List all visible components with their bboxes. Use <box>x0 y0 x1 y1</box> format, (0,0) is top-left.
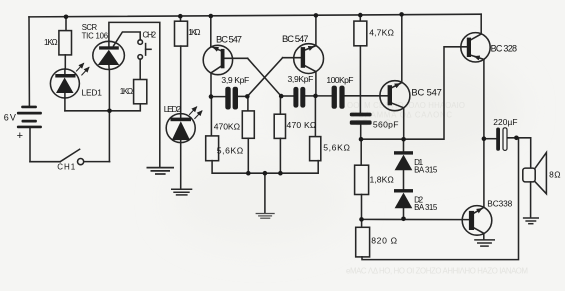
ground G5 LED2 <box>171 189 192 195</box>
LED1 bar <box>55 74 75 78</box>
node F C4-R9 junction <box>359 137 364 142</box>
Q1 emitter diagonal <box>211 46 221 50</box>
wire node D down to R6 <box>279 96 281 114</box>
battery B1 6V plates <box>17 106 42 129</box>
faint print-through artifacts <box>346 101 528 276</box>
wire rail to Q1 emitter <box>210 16 212 47</box>
switch CH1 blade <box>60 149 79 161</box>
wire R4 down through crossover to C4 <box>359 46 361 113</box>
wire SCR cathode up and over to ground <box>109 22 160 167</box>
svg-text:100KpF: 100KpF <box>326 75 353 85</box>
svg-text:BC 547: BC 547 <box>282 33 309 44</box>
svg-text:3,9 KpF: 3,9 KpF <box>221 75 249 85</box>
capacitor C1 wire right <box>238 95 247 97</box>
svg-text:5,6KΩ: 5,6KΩ <box>323 142 350 152</box>
svg-text:8Ω: 8Ω <box>549 169 560 179</box>
capacitor C1 3,9KpF plates <box>225 87 230 110</box>
SCR inner stems <box>108 41 110 46</box>
node rail-Q3 junction <box>399 12 404 17</box>
svg-text:4,7KΩ: 4,7KΩ <box>369 28 394 38</box>
wire Q3 collector down to node F <box>403 108 405 140</box>
SCR cathode bar <box>99 46 119 49</box>
wire cross X left-to-right <box>248 58 282 96</box>
svg-text:BC338: BC338 <box>487 198 512 208</box>
wire node C down to R5 <box>247 96 249 111</box>
transistor Q3 circle <box>380 81 410 111</box>
switch CH1 contact <box>78 159 84 165</box>
svg-text:TIC 106: TIC 106 <box>82 31 109 40</box>
diode D2 bar <box>394 189 413 192</box>
svg-text:BC 547: BC 547 <box>411 87 442 98</box>
wire rail corner down to Q4 <box>480 14 482 34</box>
wire node D to C2 <box>281 95 293 97</box>
node E Q2 collector junction <box>313 94 318 99</box>
Q4 base bar <box>467 38 471 57</box>
wire CH1 to riser <box>84 161 110 163</box>
node rail-R3 junction <box>178 14 183 19</box>
node G R9-R10 junction <box>359 217 364 222</box>
SCR triangle <box>98 50 119 65</box>
wire top supply rail <box>29 14 481 17</box>
svg-text:1KΩ: 1KΩ <box>120 87 133 96</box>
node Q4 collector C5 junction <box>482 136 487 141</box>
wire node F down to R9 <box>360 139 362 165</box>
node rail-Q1 junction <box>209 14 214 19</box>
svg-text:3,9KpF: 3,9KpF <box>288 74 314 84</box>
Q5 emitter diagonal <box>474 207 484 213</box>
svg-text:6V: 6V <box>4 112 16 122</box>
node R6-bottom junction <box>278 171 283 176</box>
wire node A horizontal LED1/R2 <box>65 104 140 111</box>
Q2 collector diagonal <box>305 66 316 72</box>
Q1 base bar <box>221 49 225 68</box>
wire LED1 bottom <box>64 98 66 111</box>
capacitor C3 100KpF plates <box>332 86 337 109</box>
resistor R8 5,6K box <box>310 137 321 161</box>
wire R5 to bottom rail <box>247 138 249 173</box>
diode D1 bar <box>394 151 413 154</box>
LED2 light arrows <box>190 107 197 115</box>
LED2 circle <box>166 114 195 143</box>
wire node G to BC338 base <box>362 218 469 220</box>
wire node G down to R10 <box>361 219 363 227</box>
Q3 base bar <box>388 85 392 105</box>
capacitor C5 220uF plus plate <box>496 128 500 151</box>
transistor Q4 BC328 circle <box>461 33 490 62</box>
node B Q1 collector junction <box>209 94 214 99</box>
wire battery minus stem <box>29 128 31 161</box>
ground G1 SCR cathode <box>147 168 175 174</box>
ground G2 astable <box>256 214 275 219</box>
svg-text:BA 315: BA 315 <box>414 165 438 174</box>
wire LED2 to ground <box>180 143 182 189</box>
Q2 base lead <box>283 57 301 59</box>
wire ground stem astable <box>264 173 266 213</box>
svg-text:220µF: 220µF <box>493 117 517 127</box>
resistor R5 470K box <box>242 111 254 138</box>
node G D2 junction <box>401 217 406 222</box>
Q1 base lead <box>224 57 247 59</box>
wire Q5 collector to ground <box>483 233 485 239</box>
node R5-bottom junction <box>246 171 251 176</box>
wire R6 to bottom rail <box>279 138 281 173</box>
resistor R10 820 box <box>356 227 370 257</box>
wire 220uF left <box>484 138 496 140</box>
svg-text:470 KΩ: 470 KΩ <box>287 120 317 130</box>
resistor R7 5,6K box <box>206 136 219 161</box>
switch CH2 plunger <box>145 44 147 56</box>
wire bottom return rail to output <box>362 138 519 260</box>
node C C1-R5 junction <box>245 94 250 99</box>
capacitor C4 560pF plates <box>350 113 372 117</box>
wire rail to R4 <box>359 15 361 21</box>
wire 220uF right to speaker <box>507 138 531 168</box>
Q1 collector diagonal <box>211 66 221 73</box>
node C5-speaker junction <box>514 136 519 141</box>
wire Q1 collector down <box>210 73 212 97</box>
wire Q2 collector down <box>315 72 317 96</box>
svg-text:560pF: 560pF <box>373 120 399 130</box>
wire cross X right-to-left <box>247 58 282 97</box>
wire C3 to Q3 base <box>345 95 388 97</box>
wire node B to C1 <box>211 96 225 98</box>
ground G4 speaker <box>523 218 539 224</box>
wire Q4 emitter down to BC338 <box>483 59 485 207</box>
wire node E down to R8 <box>314 96 316 137</box>
wire rail to Q2 emitter <box>315 15 317 45</box>
wire left edge from rail to battery <box>28 17 30 106</box>
wire rail to R3 <box>180 16 182 21</box>
diode D2 triangle <box>395 193 413 209</box>
wire D2 to node G <box>403 208 405 219</box>
svg-text:1,8KΩ: 1,8KΩ <box>370 175 395 185</box>
wire R3 to LED2 <box>180 46 182 114</box>
node ground-stem junction <box>263 171 268 176</box>
svg-text:1KΩ: 1KΩ <box>188 28 200 37</box>
svg-text:820 Ω: 820 Ω <box>371 236 397 246</box>
wire speaker to ground <box>530 182 532 218</box>
ground G3 BC338 <box>474 240 495 246</box>
resistor R3 1K box <box>175 21 188 46</box>
Q4 collector diagonal top <box>471 34 482 40</box>
svg-text:LED1: LED1 <box>82 88 103 98</box>
wire node B down to R7 <box>210 97 212 136</box>
capacitor C5 220uF minus plate <box>503 128 507 151</box>
wire battery plus to CH1 <box>30 161 60 163</box>
node rail-R1 junction <box>64 14 69 19</box>
svg-text:CH1: CH1 <box>57 163 76 172</box>
resistor R9 1,8K box <box>355 165 369 194</box>
Q3 emitter diagonal <box>392 83 402 88</box>
wire node E to C3 <box>316 95 332 97</box>
wire rail to Q3 emitter <box>401 15 403 83</box>
node rail-R4 junction <box>358 13 363 18</box>
svg-text:еΜΑС ΛΔ ΗΟ, ΗΟ ΟΙ ΖΟΗΖΟ ΑΗΗΙΛΗ: еΜΑС ΛΔ ΗΟ, ΗΟ ΟΙ ΖΟΗΖΟ ΑΗΗΙΛΗΟ ΗΑΖΟ ΙΑΝ… <box>346 267 528 276</box>
wire rail to R1 <box>65 17 67 31</box>
svg-text:BC 328: BC 328 <box>491 43 517 53</box>
Q5 base bar <box>469 211 474 230</box>
SCR U1 circle <box>93 41 125 69</box>
diode D1 triangle <box>395 155 413 171</box>
wire R1 to LED1 <box>64 55 66 69</box>
Q5 collector diagonal <box>474 228 484 233</box>
LED1 circle <box>50 69 79 98</box>
transistor Q2 circle <box>294 44 324 74</box>
resistor R6 470K box <box>274 114 285 138</box>
svg-text:1KΩ: 1KΩ <box>44 38 58 47</box>
speaker horn <box>535 153 546 194</box>
Q4 emitter diagonal with arrow to bar <box>471 55 484 59</box>
svg-text:+: + <box>17 130 23 142</box>
resistor R2 1K box <box>134 80 147 104</box>
capacitor C2 wire right <box>305 95 315 97</box>
wire SCR gate to CH2 <box>114 32 141 46</box>
node rail-Q2 junction <box>314 13 319 18</box>
LED1 inner stems <box>64 69 66 74</box>
resistor R4 4,7K box <box>354 21 367 46</box>
LED2 bar <box>171 118 192 122</box>
node D C2-R6 junction <box>279 94 284 99</box>
transistor Q1 circle <box>203 45 232 74</box>
wire node F horizontal to BC328 base riser <box>361 47 467 139</box>
node F Q3 collector junction <box>401 137 406 142</box>
LED2 inner stems <box>180 114 182 118</box>
svg-text:BC 547: BC 547 <box>216 34 242 45</box>
svg-text:5,6KΩ: 5,6KΩ <box>217 145 244 155</box>
switch CH2 contacts <box>138 40 143 45</box>
wire D1 to D2 <box>403 170 405 189</box>
wire CH2 to R2 <box>139 59 141 79</box>
Q2 emitter diagonal <box>305 46 316 50</box>
transistor Q5 BC338 circle <box>462 206 492 236</box>
wire C4 to node F <box>360 125 362 140</box>
Q3 collector diagonal <box>392 103 404 108</box>
wire R9 to node G <box>361 195 363 220</box>
speaker box <box>523 168 535 182</box>
Q2 base bar <box>301 47 305 68</box>
svg-text:470KΩ: 470KΩ <box>214 121 241 131</box>
wire riser CH1 up to SCR anode <box>108 69 110 161</box>
svg-text:CH2: CH2 <box>143 30 157 39</box>
svg-text:BA 315: BA 315 <box>414 203 438 212</box>
node A SCR anode junction <box>107 109 112 114</box>
resistor R1 1K box <box>59 31 72 55</box>
LED1 light arrows <box>77 64 84 72</box>
svg-text:LED2: LED2 <box>164 104 182 114</box>
capacitor C2 3,9KpF plates <box>293 87 298 108</box>
wire node F to D1 <box>403 139 405 151</box>
wire bottom rail of astable <box>212 161 318 174</box>
LED1 triangle <box>56 78 74 94</box>
LED2 triangle <box>172 121 190 140</box>
